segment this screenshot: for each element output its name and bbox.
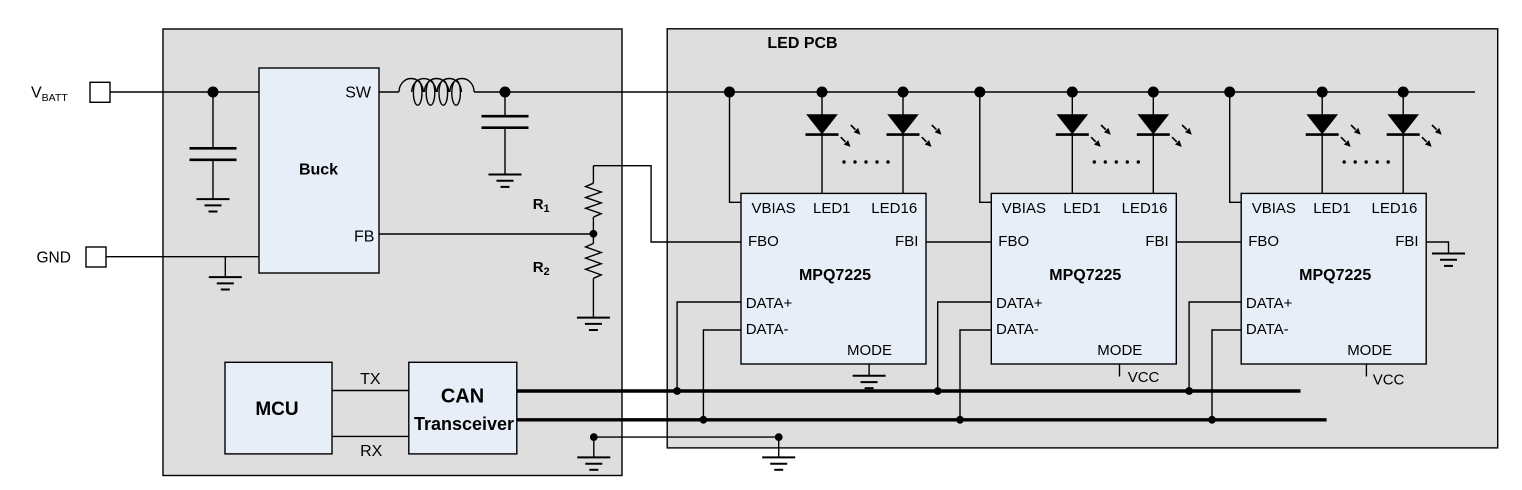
- LED D2a with light arrows: [1071, 92, 1073, 193]
- wire DATA+ U3: [1189, 302, 1241, 391]
- svg-text:Transceiver: Transceiver: [414, 414, 514, 434]
- wire VBATT to buck input: [110, 91, 259, 93]
- svg-text:FBO: FBO: [1248, 233, 1279, 250]
- svg-text:TX: TX: [360, 371, 381, 388]
- svg-text:FBO: FBO: [748, 233, 779, 250]
- junction DATA- bus U1: [700, 416, 708, 424]
- junction VBIAS rail U1: [724, 87, 735, 98]
- CAN bus high line: [517, 389, 1301, 392]
- wire DATA+ U1: [677, 302, 741, 391]
- ground of C2: [489, 175, 522, 187]
- junction LED16 rail U3: [1398, 87, 1409, 98]
- svg-text:Buck: Buck: [299, 162, 338, 179]
- MCU box: [225, 362, 332, 454]
- wire FBI U2 to FBO U3: [1176, 241, 1241, 243]
- junction LED16 rail U1: [898, 87, 909, 98]
- ground of R2: [577, 318, 610, 330]
- svg-text:DATA-: DATA-: [1246, 321, 1289, 338]
- LED D3b with light arrows: [1402, 92, 1404, 193]
- wire DATA+ U2: [938, 302, 992, 391]
- svg-text:DATA-: DATA-: [746, 321, 789, 338]
- svg-text:VCC: VCC: [1128, 369, 1160, 386]
- svg-text:VBIAS: VBIAS: [1252, 200, 1296, 217]
- wire RX: [332, 435, 409, 437]
- svg-text:FBI: FBI: [895, 233, 918, 250]
- terminal VBATT pad: [90, 82, 110, 102]
- junction output cap node: [500, 87, 511, 98]
- ground return wire between PCBs: [594, 436, 779, 438]
- ground stub left PCB: [593, 437, 595, 457]
- ground of C1: [197, 199, 230, 211]
- CAN bus low line: [517, 418, 1327, 421]
- svg-text:VBIAS: VBIAS: [1002, 200, 1046, 217]
- terminal GND pad: [86, 247, 106, 267]
- LED D3a with light arrows: [1321, 92, 1323, 193]
- ground stub on GND wire: [224, 257, 226, 277]
- svg-text:FBO: FBO: [998, 233, 1029, 250]
- junction LED1 rail U1: [817, 87, 828, 98]
- svg-text:CAN: CAN: [441, 386, 484, 408]
- junction LED1 rail U2: [1067, 87, 1078, 98]
- resistor R2: [592, 234, 594, 244]
- inductor L1: [399, 78, 474, 92]
- svg-text:FBI: FBI: [1395, 233, 1418, 250]
- junction LED1 rail U3: [1317, 87, 1328, 98]
- svg-text:LED1: LED1: [813, 200, 851, 217]
- svg-text:MPQ7225: MPQ7225: [1049, 267, 1121, 284]
- ground symbol near buck: [209, 277, 242, 289]
- svg-text:DATA+: DATA+: [996, 295, 1043, 312]
- svg-text:MODE: MODE: [1097, 342, 1142, 359]
- junction DATA- bus U3: [1208, 416, 1216, 424]
- MPQ7225 chip U2 box: [991, 193, 1176, 364]
- capacitor C2 output: [504, 92, 506, 116]
- LED D1b with light arrows: [902, 92, 904, 193]
- wire DATA- U3: [1212, 330, 1241, 420]
- junction DATA- bus U2: [956, 416, 964, 424]
- wire VBIAS tap U2: [980, 92, 992, 202]
- ground stub LED PCB: [778, 437, 780, 457]
- junction input cap node: [208, 87, 219, 98]
- wire SW to inductor: [379, 91, 399, 93]
- ellipsis dots LED string U3: [1343, 160, 1346, 163]
- svg-text:MCU: MCU: [255, 399, 298, 420]
- wire VBIAS tap U3: [1230, 92, 1242, 202]
- svg-text:GND: GND: [37, 249, 71, 266]
- junction DATA+ bus U2: [934, 387, 942, 395]
- junction ground return left: [590, 433, 598, 441]
- svg-text:LED16: LED16: [1122, 200, 1168, 217]
- svg-text:LED1: LED1: [1063, 200, 1101, 217]
- wire R1 top to FBO chain: [593, 166, 741, 242]
- svg-text:LED1: LED1: [1313, 200, 1351, 217]
- svg-text:DATA+: DATA+: [746, 295, 793, 312]
- svg-text:FB: FB: [354, 229, 374, 246]
- ellipsis dots LED string U1: [842, 160, 845, 163]
- junction LED16 rail U2: [1148, 87, 1159, 98]
- wire FB to divider: [379, 233, 593, 235]
- controller PCB enclosure box: [163, 29, 622, 476]
- buck converter U1 box: [259, 68, 379, 273]
- MPQ7225 chip U3 box: [1241, 193, 1426, 364]
- capacitor C1 input: [212, 92, 214, 148]
- svg-text:FBI: FBI: [1145, 233, 1168, 250]
- LED D1a with light arrows: [821, 92, 823, 193]
- svg-text:MPQ7225: MPQ7225: [799, 267, 871, 284]
- svg-text:VCC: VCC: [1373, 372, 1405, 389]
- svg-text:LED16: LED16: [1372, 200, 1418, 217]
- wire DATA- U2: [960, 330, 991, 420]
- wire VBIAS tap U1: [730, 92, 742, 202]
- ground FBI termination: [1432, 254, 1465, 266]
- LED PCB enclosure box: [667, 29, 1497, 448]
- junction VBIAS rail U3: [1224, 87, 1235, 98]
- svg-text:MPQ7225: MPQ7225: [1299, 267, 1371, 284]
- wire VBATT rail from inductor across LED PCB: [474, 91, 1475, 93]
- junction FB divider node: [590, 230, 598, 238]
- wire GND terminal to buck: [106, 256, 259, 258]
- svg-text:VBIAS: VBIAS: [752, 200, 796, 217]
- svg-text:LED16: LED16: [871, 200, 917, 217]
- wire DATA- U1: [703, 330, 741, 420]
- MODE VCC stub U3: [1365, 364, 1367, 377]
- svg-text:RX: RX: [360, 443, 383, 460]
- junction DATA+ bus U1: [673, 387, 681, 395]
- MODE VCC stub U2: [1119, 364, 1121, 377]
- wire FBI U1 to FBO U2: [926, 241, 991, 243]
- wire TX: [332, 390, 409, 392]
- MPQ7225 chip U1 box: [741, 193, 926, 364]
- junction VBIAS rail U2: [974, 87, 985, 98]
- svg-text:MODE: MODE: [1347, 342, 1392, 359]
- svg-text:DATA-: DATA-: [996, 321, 1039, 338]
- junction ground return right: [775, 433, 783, 441]
- svg-text:LED PCB: LED PCB: [767, 35, 837, 52]
- LED D2b with light arrows: [1152, 92, 1154, 193]
- svg-text:MODE: MODE: [847, 342, 892, 359]
- MODE ground U1: [868, 364, 870, 376]
- resistor R1: [592, 166, 594, 184]
- wire FBI U3 to ground: [1426, 242, 1448, 254]
- svg-text:DATA+: DATA+: [1246, 295, 1293, 312]
- ellipsis dots LED string U2: [1093, 160, 1096, 163]
- junction DATA+ bus U3: [1185, 387, 1193, 395]
- CAN transceiver box: [409, 362, 517, 454]
- svg-text:SW: SW: [345, 84, 372, 101]
